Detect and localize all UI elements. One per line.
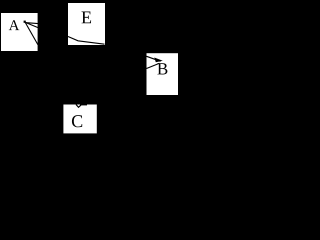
wire C to B shaft into B (147, 63, 160, 68)
wire C to B stub along C top edge (80, 104, 87, 107)
wire A to C shaft (25, 22, 38, 45)
label B (157, 63, 167, 74)
arrowhead at node C (76, 105, 81, 108)
node E box (68, 3, 105, 45)
label E (82, 12, 92, 24)
wire E to B shaft into B (147, 56, 161, 61)
node B box (147, 53, 179, 95)
label C (72, 115, 82, 127)
node C box (63, 105, 96, 134)
wire E to A barb (25, 23, 38, 24)
node A box (1, 13, 38, 51)
label A (9, 20, 20, 30)
arrowhead tip at node A (24, 21, 26, 23)
wire E to A shaft (25, 22, 38, 27)
wire E to B crossing box E (68, 37, 105, 45)
arrowhead at node B (154, 58, 163, 63)
